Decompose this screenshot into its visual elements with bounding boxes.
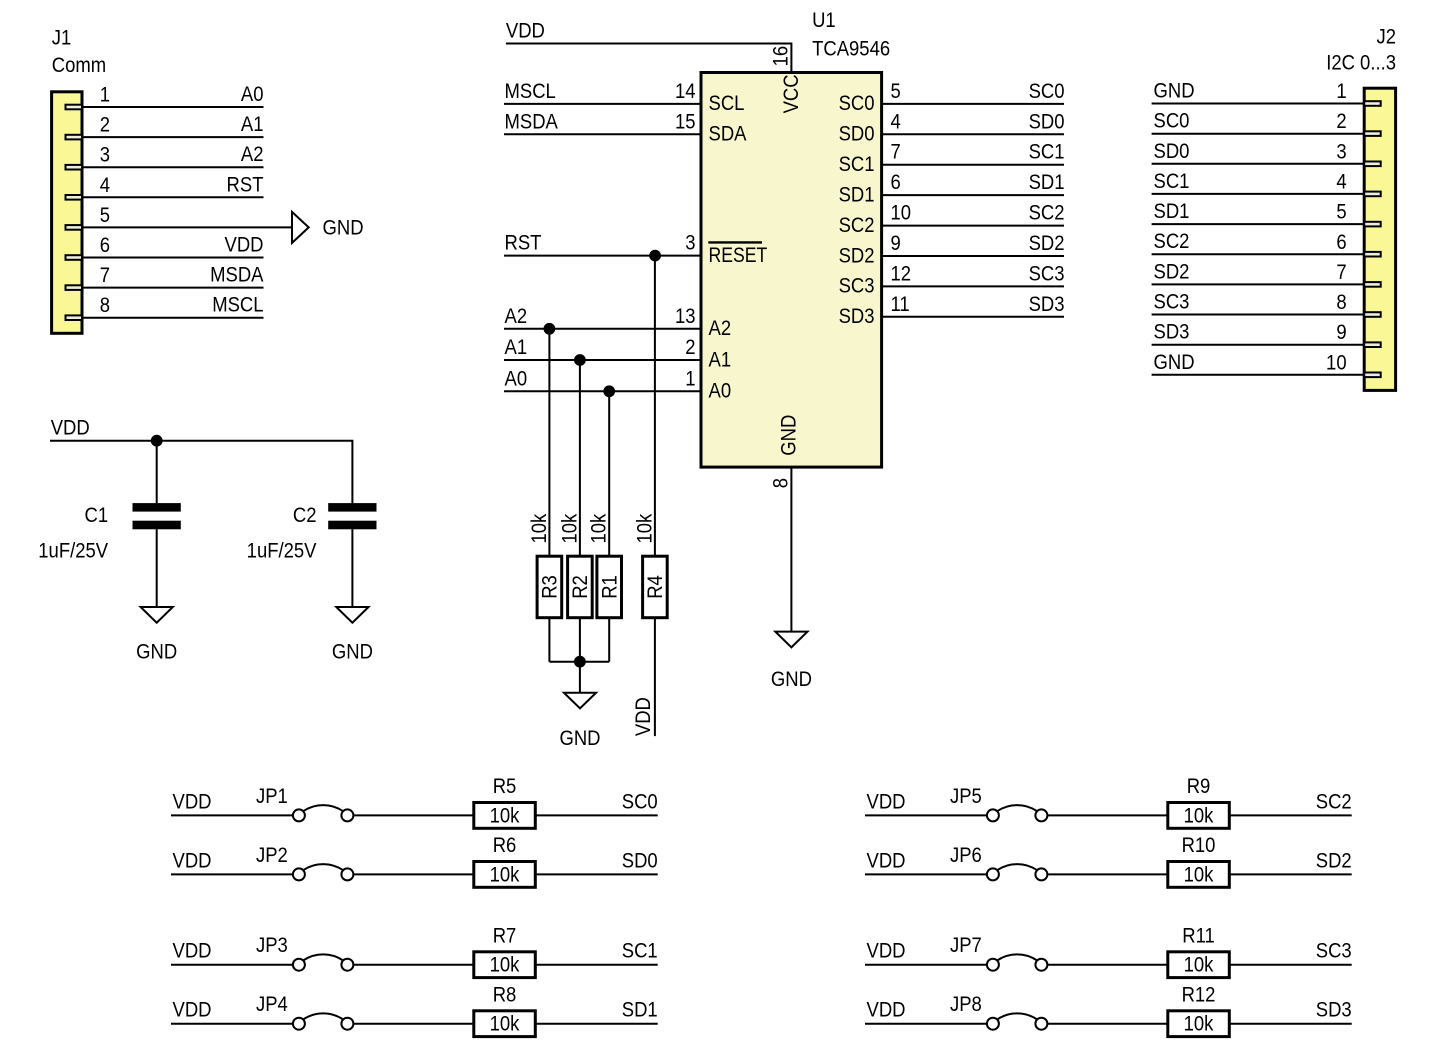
svg-text:VDD: VDD	[51, 416, 90, 439]
svg-text:1uF/25V: 1uF/25V	[38, 540, 109, 563]
wire J1 pin 1	[82, 106, 264, 108]
svg-text:7: 7	[100, 264, 110, 287]
connector J1 pin 8 stub	[66, 315, 83, 320]
wire JP6 to R10	[1047, 873, 1167, 875]
svg-text:RESET: RESET	[709, 243, 768, 267]
wire A0 to U1 pin 1	[504, 390, 701, 392]
svg-text:VCC: VCC	[780, 74, 803, 113]
capacitor C2	[328, 503, 376, 529]
svg-text:SC0: SC0	[1154, 110, 1190, 133]
wire R2 to GND bus	[579, 618, 581, 662]
svg-text:SD2: SD2	[1154, 260, 1190, 283]
wire MSCL to U1 pin 14	[504, 103, 701, 105]
svg-text:SC0: SC0	[839, 92, 875, 115]
wire C1 to GND	[156, 529, 158, 607]
svg-text:15: 15	[675, 110, 696, 133]
svg-text:5: 5	[100, 204, 110, 227]
svg-text:R2: R2	[569, 575, 592, 599]
svg-text:9: 9	[1336, 321, 1346, 344]
svg-text:10k: 10k	[490, 1013, 520, 1036]
svg-text:MSCL: MSCL	[505, 80, 556, 103]
svg-text:2: 2	[100, 114, 110, 137]
resistor R5	[474, 803, 536, 829]
svg-text:10k: 10k	[490, 804, 520, 827]
wire U1 GND pin 8	[790, 467, 792, 631]
svg-text:GND: GND	[1154, 351, 1195, 374]
IC U1 TCA9546 body	[701, 73, 882, 468]
jumper JP2	[293, 864, 354, 880]
svg-text:JP6: JP6	[950, 844, 982, 867]
svg-text:9: 9	[891, 232, 901, 255]
junction on VDD rail (C1)	[151, 435, 163, 447]
wire J1 pin 3	[82, 166, 264, 168]
wire A1 to U1 pin 2	[504, 359, 701, 361]
connector J1 pin 6 stub	[66, 255, 83, 260]
svg-text:1: 1	[1336, 80, 1346, 103]
wire J2 pin 2	[1152, 133, 1365, 135]
connector J2 pin 4 stub	[1364, 192, 1381, 197]
svg-text:JP5: JP5	[950, 785, 982, 808]
resistor R10	[1168, 862, 1230, 888]
svg-text:7: 7	[891, 141, 901, 164]
wire U1 pin 9 to SD2	[882, 255, 1064, 257]
svg-text:A1: A1	[505, 336, 528, 359]
wire JP5 to R9	[1047, 814, 1167, 816]
svg-text:SC1: SC1	[839, 153, 875, 176]
wire J1 pin 4	[82, 196, 264, 198]
wire U1 pin 11 to SD3	[882, 316, 1064, 318]
svg-text:SC3: SC3	[1029, 262, 1065, 285]
wire VDD to JP7	[865, 964, 987, 966]
svg-text:R10: R10	[1182, 834, 1216, 857]
svg-text:R4: R4	[644, 575, 667, 599]
wire R9 to SC2	[1229, 814, 1351, 816]
svg-text:SD2: SD2	[1029, 232, 1065, 255]
svg-text:GND: GND	[771, 668, 812, 691]
svg-text:8: 8	[100, 294, 110, 317]
wire J2 pin 5	[1152, 223, 1365, 225]
jumper JP4	[293, 1013, 354, 1029]
svg-text:SD2: SD2	[839, 244, 875, 267]
svg-text:Comm: Comm	[52, 54, 106, 77]
wire VDD to JP3	[171, 964, 293, 966]
svg-text:VDD: VDD	[225, 233, 264, 256]
svg-text:SD3: SD3	[1029, 293, 1065, 316]
connector J2 pin 3 stub	[1364, 162, 1381, 167]
resistor R12	[1168, 1011, 1230, 1037]
svg-text:4: 4	[100, 174, 110, 197]
svg-text:10: 10	[1326, 351, 1347, 374]
svg-text:GND: GND	[136, 640, 177, 663]
resistor R9	[1168, 803, 1230, 829]
svg-text:U1: U1	[812, 9, 836, 32]
svg-text:2: 2	[1336, 110, 1346, 133]
wire R4 to VDD	[654, 618, 656, 736]
junction on GND bus	[574, 656, 586, 668]
U1 pin name RESET with overline	[708, 242, 767, 267]
svg-text:R7: R7	[493, 924, 517, 947]
wire GND bus down	[579, 662, 581, 693]
resistor R7	[474, 952, 536, 978]
svg-text:R3: R3	[539, 575, 562, 599]
wire VDD to JP6	[865, 873, 987, 875]
svg-text:GND: GND	[332, 640, 373, 663]
wire R12 to SD3	[1229, 1023, 1351, 1025]
ground symbol (U1 GND)	[775, 632, 807, 648]
connector J2 pin 10 stub	[1364, 373, 1381, 378]
connector J1 pin 5 stub	[66, 225, 83, 230]
svg-text:SD1: SD1	[1154, 200, 1190, 223]
svg-text:4: 4	[891, 110, 901, 133]
svg-text:VDD: VDD	[867, 940, 906, 963]
svg-text:SC3: SC3	[1316, 940, 1352, 963]
wire A2 junction to R3	[548, 329, 550, 556]
jumper JP6	[987, 864, 1048, 880]
junction on A1 wire	[574, 354, 586, 366]
wire VDD to U1 VCC	[506, 44, 792, 73]
connector J2 pin 7 stub	[1364, 282, 1381, 287]
svg-text:A0: A0	[505, 367, 528, 390]
svg-text:SC2: SC2	[1316, 790, 1352, 813]
wire J2 pin 7	[1152, 283, 1365, 285]
svg-text:R11: R11	[1182, 924, 1215, 947]
svg-text:JP1: JP1	[256, 785, 288, 808]
connector J1 pin 2 stub	[66, 135, 83, 140]
svg-text:10k: 10k	[633, 514, 656, 544]
svg-text:8: 8	[1336, 291, 1346, 314]
svg-text:14: 14	[675, 80, 696, 103]
wire R10 to SD2	[1229, 873, 1351, 875]
svg-text:RST: RST	[227, 173, 264, 196]
wire J2 pin 3	[1152, 163, 1365, 165]
connector J1 pin 4 stub	[66, 195, 83, 200]
ground symbol (R1-R3)	[564, 693, 596, 709]
resistor R1	[597, 556, 622, 618]
wire U1 pin 4 to SD0	[882, 133, 1064, 135]
svg-text:3: 3	[685, 232, 695, 255]
svg-text:3: 3	[1336, 140, 1346, 163]
svg-text:VDD: VDD	[173, 790, 212, 813]
svg-text:SC1: SC1	[622, 940, 658, 963]
svg-text:GND: GND	[323, 217, 364, 240]
connector J2 pin 1 stub	[1364, 101, 1381, 106]
wire J2 pin 1	[1152, 103, 1365, 105]
svg-text:SD1: SD1	[839, 183, 875, 206]
connector J1 pin 3 stub	[66, 165, 83, 170]
svg-text:SC1: SC1	[1154, 170, 1190, 193]
svg-text:10k: 10k	[558, 514, 581, 544]
svg-text:10k: 10k	[1184, 1013, 1214, 1036]
wire J1 pin 8	[82, 317, 264, 319]
svg-text:6: 6	[100, 234, 110, 257]
svg-text:VDD: VDD	[867, 849, 906, 872]
svg-text:7: 7	[1336, 261, 1346, 284]
svg-text:6: 6	[1336, 231, 1346, 254]
wire A0 junction to R1	[608, 391, 610, 556]
resistor R6	[474, 862, 536, 888]
wire RST to U1 pin 3	[504, 255, 701, 257]
ground symbol (J1 pin 5, right-pointing)	[292, 212, 309, 243]
capacitor C1	[133, 503, 181, 529]
svg-text:SD1: SD1	[1029, 171, 1065, 194]
wire J2 pin 10	[1152, 374, 1365, 376]
resistor R8	[474, 1011, 536, 1037]
svg-text:J2: J2	[1376, 26, 1396, 49]
wire VDD to C1	[156, 441, 158, 503]
wire J1 pin 7	[82, 287, 264, 289]
svg-text:A1: A1	[709, 348, 732, 371]
svg-text:JP4: JP4	[256, 993, 288, 1016]
connector J2 pin 9 stub	[1364, 342, 1381, 347]
jumper JP8	[987, 1013, 1048, 1029]
wire C2 to GND	[351, 529, 353, 607]
wire A1 junction to R2	[579, 360, 581, 556]
svg-text:10: 10	[891, 202, 912, 225]
svg-text:VDD: VDD	[867, 790, 906, 813]
wire RST junction to R4	[654, 256, 656, 557]
svg-text:GND: GND	[1154, 79, 1195, 102]
svg-text:4: 4	[1336, 170, 1346, 193]
wire VDD to JP8	[865, 1023, 987, 1025]
svg-text:8: 8	[770, 478, 793, 488]
wire JP3 to R7	[353, 964, 473, 966]
wire MSDA to U1 pin 15	[504, 133, 701, 135]
svg-text:SC2: SC2	[839, 214, 875, 237]
ground symbol (C2)	[336, 607, 368, 623]
wire U1 pin 12 to SC3	[882, 285, 1064, 287]
connector J1 pin 1 stub	[66, 105, 83, 110]
svg-text:5: 5	[1336, 201, 1346, 224]
wire J2 pin 4	[1152, 193, 1365, 195]
connector J2 pin 2 stub	[1364, 131, 1381, 136]
wire VDD to JP5	[865, 814, 987, 816]
svg-text:VDD: VDD	[173, 849, 212, 872]
svg-text:VDD: VDD	[173, 999, 212, 1022]
svg-text:MSDA: MSDA	[505, 110, 559, 133]
wire JP1 to R5	[353, 814, 473, 816]
svg-text:R12: R12	[1182, 983, 1216, 1006]
wire A2 to U1 pin 13	[504, 328, 701, 330]
wire R8 to SD1	[535, 1023, 657, 1025]
svg-text:11: 11	[891, 293, 910, 316]
wire R11 to SC3	[1229, 964, 1351, 966]
svg-text:MSCL: MSCL	[212, 294, 263, 317]
svg-text:13: 13	[675, 305, 696, 328]
svg-text:R6: R6	[493, 834, 517, 857]
wire JP2 to R6	[353, 873, 473, 875]
svg-text:JP2: JP2	[256, 844, 288, 867]
svg-text:SCL: SCL	[709, 92, 745, 115]
svg-text:I2C 0...3: I2C 0...3	[1326, 51, 1396, 74]
svg-text:10k: 10k	[1184, 954, 1214, 977]
svg-text:A2: A2	[241, 143, 264, 166]
jumper JP1	[293, 805, 354, 821]
svg-text:JP8: JP8	[950, 993, 982, 1016]
svg-text:SD1: SD1	[622, 999, 658, 1022]
svg-text:VDD: VDD	[632, 697, 655, 736]
svg-text:R8: R8	[493, 983, 517, 1006]
wire VDD to JP1	[171, 814, 293, 816]
resistor R11	[1168, 952, 1230, 978]
svg-text:A2: A2	[709, 317, 732, 340]
connector J1 pin 7 stub	[66, 285, 83, 290]
svg-text:R5: R5	[493, 775, 517, 798]
wire VDD rail	[50, 441, 352, 503]
junction on A0 wire	[603, 385, 615, 397]
wire R5 to SC0	[535, 814, 657, 816]
svg-text:SC2: SC2	[1029, 202, 1065, 225]
wire J1 pin 5	[82, 226, 291, 228]
svg-text:J1: J1	[52, 27, 72, 50]
wire JP7 to R11	[1047, 964, 1167, 966]
svg-text:SD2: SD2	[1316, 849, 1352, 872]
junction on RST wire	[649, 250, 661, 262]
svg-text:A0: A0	[241, 83, 264, 106]
svg-text:10k: 10k	[1184, 804, 1214, 827]
resistor R3	[537, 556, 562, 618]
wire J1 pin 2	[82, 136, 264, 138]
connector J2 pin 5 stub	[1364, 222, 1381, 227]
svg-text:10k: 10k	[490, 954, 520, 977]
svg-text:6: 6	[891, 171, 901, 194]
wire U1 pin 5 to SC0	[882, 103, 1064, 105]
svg-text:1: 1	[685, 367, 695, 390]
svg-text:SD3: SD3	[839, 305, 875, 328]
svg-text:GND: GND	[559, 727, 600, 750]
svg-text:SC3: SC3	[839, 275, 875, 298]
wire JP8 to R12	[1047, 1023, 1167, 1025]
svg-text:C2: C2	[293, 504, 317, 527]
connector J2 pin 6 stub	[1364, 252, 1381, 257]
svg-text:SC3: SC3	[1154, 290, 1190, 313]
jumper JP3	[293, 954, 354, 970]
wire VDD to JP2	[171, 873, 293, 875]
wire R1 to GND bus	[608, 618, 610, 662]
svg-text:C1: C1	[84, 504, 108, 527]
svg-text:SDA: SDA	[709, 123, 748, 146]
svg-text:10k: 10k	[1184, 863, 1214, 886]
svg-text:1: 1	[100, 83, 110, 106]
wire VDD to JP4	[171, 1023, 293, 1025]
svg-text:A0: A0	[709, 380, 732, 403]
svg-text:A1: A1	[241, 113, 264, 136]
svg-text:SD3: SD3	[1154, 321, 1190, 344]
wire J2 pin 8	[1152, 314, 1365, 316]
junction on A2 wire	[544, 323, 556, 335]
svg-text:MSDA: MSDA	[210, 264, 264, 287]
connector J2 body	[1364, 88, 1395, 390]
svg-text:A2: A2	[505, 305, 528, 328]
svg-text:SD0: SD0	[839, 123, 875, 146]
svg-text:2: 2	[685, 336, 695, 359]
wire U1 pin 7 to SC1	[882, 164, 1064, 166]
connector J2 pin 8 stub	[1364, 312, 1381, 317]
svg-text:R9: R9	[1187, 775, 1211, 798]
svg-text:SC1: SC1	[1029, 141, 1065, 164]
svg-text:VDD: VDD	[867, 999, 906, 1022]
svg-text:VDD: VDD	[506, 19, 545, 42]
svg-text:SD0: SD0	[622, 849, 658, 872]
svg-text:SC2: SC2	[1154, 230, 1190, 253]
svg-text:JP3: JP3	[256, 934, 288, 957]
svg-text:SD3: SD3	[1316, 999, 1352, 1022]
svg-text:10k: 10k	[528, 514, 551, 544]
resistor R4	[643, 556, 668, 618]
svg-text:5: 5	[891, 80, 901, 103]
wire U1 pin 6 to SD1	[882, 194, 1064, 196]
svg-text:10k: 10k	[588, 514, 611, 544]
jumper JP7	[987, 954, 1048, 970]
svg-text:10k: 10k	[490, 863, 520, 886]
wire GND bus horizontal	[549, 661, 609, 663]
svg-text:TCA9546: TCA9546	[812, 38, 890, 61]
wire R7 to SC1	[535, 964, 657, 966]
resistor R2	[568, 556, 593, 618]
svg-text:VDD: VDD	[173, 940, 212, 963]
wire U1 pin 10 to SC2	[882, 225, 1064, 227]
wire J2 pin 6	[1152, 253, 1365, 255]
svg-text:R1: R1	[598, 575, 621, 599]
svg-text:1uF/25V: 1uF/25V	[247, 540, 318, 563]
ground symbol (C1)	[141, 607, 173, 623]
svg-text:3: 3	[100, 144, 110, 167]
jumper JP5	[987, 805, 1048, 821]
connector J1 body	[52, 92, 82, 333]
svg-text:16: 16	[770, 46, 793, 67]
svg-text:GND: GND	[777, 415, 800, 456]
svg-text:SD0: SD0	[1029, 110, 1065, 133]
wire JP4 to R8	[353, 1023, 473, 1025]
svg-text:12: 12	[891, 262, 912, 285]
svg-text:RST: RST	[505, 232, 542, 255]
wire R6 to SD0	[535, 873, 657, 875]
wire R3 to GND bus	[548, 618, 550, 662]
wire J2 pin 9	[1152, 344, 1365, 346]
svg-text:SC0: SC0	[1029, 80, 1065, 103]
wire J1 pin 6	[82, 257, 264, 259]
svg-text:SC0: SC0	[622, 790, 658, 813]
svg-text:SD0: SD0	[1154, 140, 1190, 163]
svg-text:JP7: JP7	[950, 934, 982, 957]
